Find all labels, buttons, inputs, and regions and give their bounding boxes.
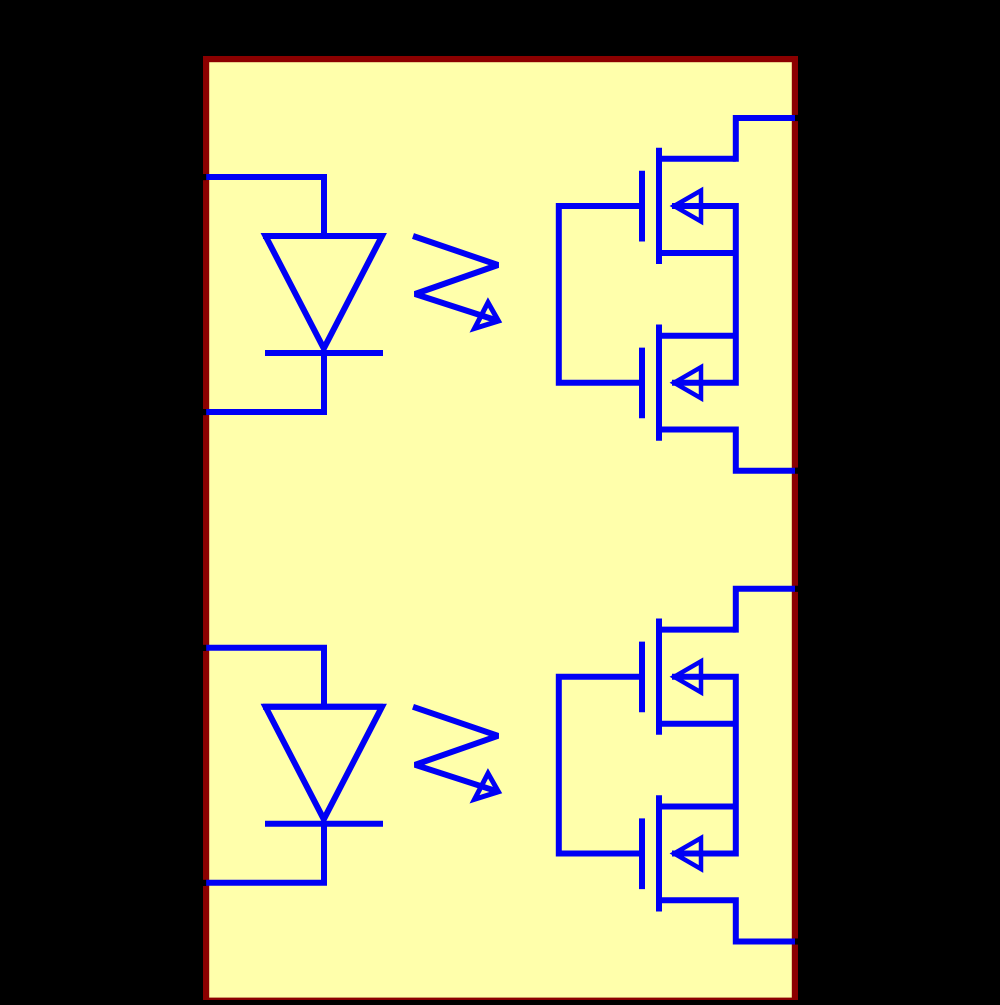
wire bulk-source rail Q1/Q2 <box>672 206 736 383</box>
pin 4 notch (right, source Q2) <box>795 468 798 474</box>
transistor Q3 bulk arrowhead <box>674 661 701 692</box>
transistor Q1 bulk arrowhead <box>674 191 701 222</box>
light-emission arrowhead unit 2 <box>475 773 499 799</box>
wire source lead Q1 <box>656 250 736 256</box>
light-emission arrow unit 1 <box>413 236 499 321</box>
wire source lead Q4 to bottom rail pin <box>656 900 795 941</box>
pin 1 notch (left, anode) <box>203 174 206 180</box>
wire gate rail Q3/Q4 <box>559 677 643 854</box>
light-emission arrowhead unit 1 <box>475 303 499 329</box>
pin 2 notch (left, cathode) <box>203 409 206 415</box>
light-emission arrow unit 2 <box>413 707 499 792</box>
wire gate rail Q1/Q2 <box>559 206 643 383</box>
transistor Q3 channel bar <box>656 619 662 735</box>
wire source lead Q2 to bottom rail pin <box>656 430 795 471</box>
LED D1 anode bar <box>263 233 383 239</box>
pin 3 notch (right, drain Q1) <box>795 115 798 121</box>
transistor Q2 channel bar <box>656 325 662 441</box>
pin 5 notch (left, anode) <box>203 645 206 651</box>
wire source lead Q3 <box>656 721 736 727</box>
LED D1 triangle <box>266 236 383 349</box>
transistor Q4 bulk arrowhead <box>674 838 701 869</box>
transistor Q4 gate bar <box>639 818 645 889</box>
wire drain lead Q1 <box>656 156 736 162</box>
transistor Q1 channel bar <box>656 148 662 264</box>
transistor Q2 gate bar <box>639 348 645 419</box>
LED D1 cathode bar <box>265 350 383 356</box>
wire cathode lead D2 <box>206 822 324 883</box>
transistor Q1 gate bar <box>639 171 645 242</box>
wire drain rail to pin (top, Q3) <box>736 589 795 633</box>
package body outline <box>203 56 798 1005</box>
wire drain lead Q2 <box>656 333 736 339</box>
transistor Q2 bulk arrowhead <box>674 367 701 398</box>
LED D2 cathode bar <box>265 821 383 827</box>
wire drain lead Q4 <box>656 804 736 810</box>
transistor Q3 gate bar <box>639 642 645 713</box>
transistor Q4 channel bar <box>656 795 662 911</box>
wire anode lead D1 <box>206 177 324 236</box>
LED D2 triangle <box>266 707 383 820</box>
package body fill <box>209 62 792 997</box>
wire anode lead D2 <box>206 648 324 707</box>
wire bulk-source rail Q3/Q4 <box>672 677 736 854</box>
pin 8 notch (right, source Q4) <box>795 938 798 944</box>
wire cathode lead D1 <box>206 351 324 412</box>
pin 7 notch (right, drain Q3) <box>795 586 798 592</box>
wire drain rail to pin (top, Q1) <box>736 118 795 162</box>
wire drain lead Q3 <box>656 627 736 633</box>
pin 6 notch (left, cathode) <box>203 880 206 886</box>
LED D2 anode bar <box>263 704 383 710</box>
